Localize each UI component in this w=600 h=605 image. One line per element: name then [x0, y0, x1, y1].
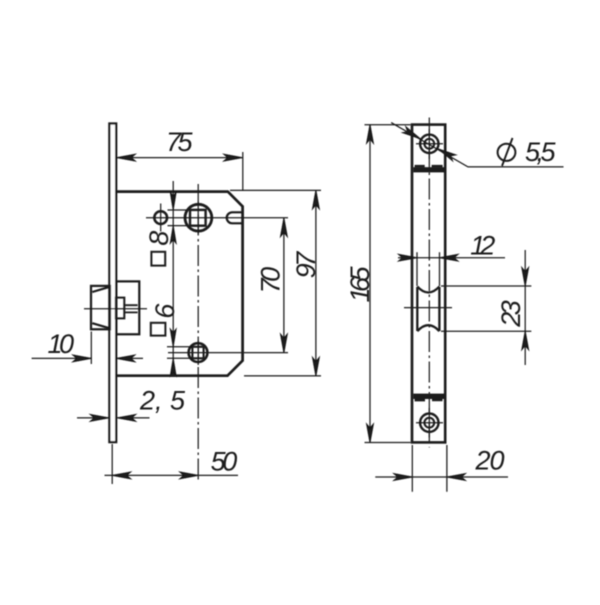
dimension 70 [256, 218, 288, 353]
bottom break band [413, 394, 444, 402]
svg-text:165: 165 [345, 265, 375, 302]
centerline plate vertical dash-dot [428, 118, 430, 448]
bottom follower circle [189, 343, 208, 362]
latch bolt head [91, 286, 110, 329]
latch spindle bar [124, 305, 137, 312]
svg-text:6: 6 [150, 303, 180, 319]
dimension 23 [441, 250, 531, 365]
svg-text:5,5: 5,5 [525, 137, 557, 167]
centerline latch axis [84, 308, 147, 310]
centerline bottom hole horizontal [168, 352, 288, 354]
centerline latch horizontal [404, 307, 452, 309]
latch bevel bottom [92, 323, 108, 328]
dimension 20 [375, 445, 508, 492]
lock case outline [115, 192, 243, 376]
centerline spindle row horizontal [146, 217, 288, 219]
aux small hole [154, 211, 167, 224]
dimension 6 [150, 303, 192, 376]
dimension 2,5 [77, 386, 186, 422]
dimension 97 [230, 190, 321, 376]
latch tail box [116, 281, 139, 334]
latch guide rect [116, 298, 125, 319]
latch opening spool [417, 287, 439, 331]
svg-text:8: 8 [144, 231, 174, 246]
dimension 75 [117, 127, 243, 190]
svg-text:20: 20 [474, 446, 504, 476]
faceplate edge view [109, 124, 116, 443]
lower square cutout [151, 323, 166, 336]
svg-text:2, 5: 2, 5 [139, 386, 186, 416]
spindle square hole [190, 210, 206, 226]
dimension 165 [345, 125, 411, 443]
top break band [413, 165, 444, 173]
svg-text:70: 70 [256, 267, 286, 294]
centerline aux hole vertical [160, 204, 162, 232]
faceplate front view [412, 125, 445, 443]
svg-text:75: 75 [166, 127, 194, 157]
dimension 8 [144, 192, 190, 245]
diameter 5,5 leader [391, 123, 563, 167]
dimension 12 [398, 231, 505, 287]
svg-text:50: 50 [211, 447, 238, 477]
svg-text:10: 10 [47, 329, 74, 359]
bottom screw hole [420, 414, 438, 432]
svg-text:23: 23 [496, 300, 526, 328]
strike notch slot [227, 212, 243, 223]
centerline vertical dash-dot through holes [197, 184, 199, 481]
dimension 50 [105, 444, 239, 484]
bottom square hole [192, 347, 203, 359]
dimension 10 [32, 329, 143, 364]
solid centerline segments at holes [197, 202, 199, 366]
spindle hole circle [185, 204, 212, 231]
dimension 8 and 6 shared dim line [172, 181, 174, 375]
upper square cutout [151, 252, 165, 266]
svg-text:12: 12 [470, 231, 495, 261]
diameter symbol [498, 138, 516, 166]
latch bevel top [92, 287, 108, 292]
top screw hole [420, 135, 438, 153]
